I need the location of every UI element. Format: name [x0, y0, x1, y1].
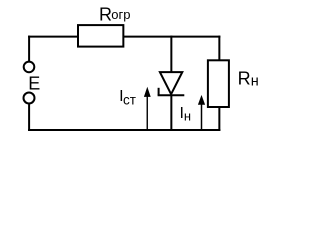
svg-text:н: н — [251, 74, 259, 90]
svg-text:R: R — [99, 5, 112, 25]
svg-text:огр: огр — [111, 7, 130, 22]
svg-text:E: E — [28, 73, 40, 93]
svg-text:н: н — [184, 109, 191, 124]
svg-text:R: R — [238, 68, 251, 88]
svg-text:ст: ст — [123, 92, 136, 107]
